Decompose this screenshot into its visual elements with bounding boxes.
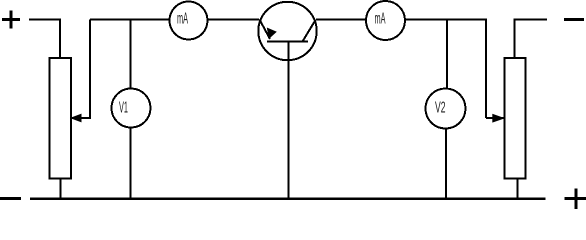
wire transistor collector to ammeter mA2 (316, 19, 366, 21)
ammeter mA2 (366, 1, 405, 40)
potentiometer R2 body (505, 58, 526, 179)
wire R2 top to battery2 minus terminal (515, 20, 548, 59)
wire R1 wiper to top node (71, 20, 90, 119)
wire tee down to voltmeter V1 (130, 20, 132, 90)
wire R2 bottom to positive rail (517, 179, 519, 200)
transistor Q1 collector lead (303, 20, 316, 42)
svg-text:mA: mA (375, 11, 386, 28)
svg-text:V1: V1 (119, 100, 128, 117)
transistor Q1 emitter arrow (PNP) (267, 28, 277, 40)
transistor Q1 emitter lead (260, 20, 271, 40)
wire V1 bottom to negative rail (130, 128, 132, 200)
battery1 minus terminal (bottom-left) (0, 197, 21, 200)
potentiometer R2 wiper arrow (492, 114, 505, 123)
wire mA1 to transistor emitter (208, 19, 260, 21)
svg-text:V2: V2 (435, 100, 446, 117)
transistor Q1 circle (258, 2, 316, 60)
wire R2 wiper horizontal (486, 117, 504, 119)
potentiometer R1 body (50, 58, 72, 179)
wire tee down to voltmeter V2 (446, 20, 448, 90)
wire from plus terminal to R1 top (29, 20, 60, 59)
voltmeter V2 (426, 89, 466, 129)
wire R1 bottom to negative rail (59, 179, 61, 200)
ammeter mA1 (170, 2, 208, 40)
wire V2 bottom to negative rail (445, 129, 447, 200)
wire wiper node to ammeter mA1 (90, 19, 170, 21)
voltmeter V1 (112, 89, 151, 128)
potentiometer R1 wiper arrow (70, 114, 82, 123)
battery1 plus terminal (top-left) (2, 11, 20, 29)
wire mA2 to R2 wiper (405, 20, 486, 119)
battery2 plus terminal (bottom-right) (565, 189, 586, 210)
svg-text:mA: mA (177, 11, 188, 28)
battery2 minus terminal (top-right) (564, 18, 584, 21)
transistor Q1 base bar (267, 41, 308, 43)
bottom common rail wire (30, 197, 546, 200)
wire transistor base to negative rail (288, 42, 290, 200)
